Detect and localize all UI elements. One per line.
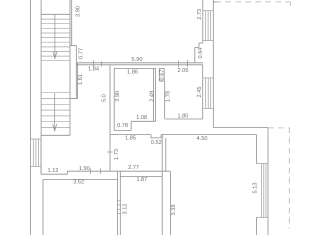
svg-text:3.90: 3.90 <box>75 6 81 17</box>
wall room SW top inner <box>43 178 118 180</box>
wall mid band <box>110 134 151 136</box>
wall divider left <box>117 171 119 235</box>
wall corridor left <box>109 65 111 171</box>
svg-text:1.84: 1.84 <box>88 67 99 73</box>
svg-text:0.77: 0.77 <box>78 48 84 59</box>
wall jog d <box>194 48 196 63</box>
svg-text:2.49: 2.49 <box>150 91 156 102</box>
wall band long <box>161 134 256 136</box>
wall stair right outer <box>71 0 73 46</box>
wall stair left <box>40 0 42 174</box>
wall NE outer vertical <box>212 0 214 128</box>
svg-text:2.05: 2.05 <box>178 68 189 74</box>
wall dip bottom <box>151 137 161 139</box>
svg-text:2.45: 2.45 <box>197 87 203 98</box>
wall step <box>66 171 68 174</box>
window W1 left wall <box>30 139 41 174</box>
wall dip right <box>160 135 162 138</box>
svg-text:0.52: 0.52 <box>151 140 162 146</box>
svg-text:3.52: 3.52 <box>73 180 84 186</box>
room mid notch bottom <box>114 129 131 131</box>
svg-text:5.0: 5.0 <box>102 94 108 102</box>
dashed boundary right vertical <box>288 128 290 229</box>
svg-text:0.78: 0.78 <box>117 123 128 129</box>
tick marks dimension jambs <box>90 60 187 174</box>
window W5 divider wall <box>117 201 121 214</box>
room SM right outer <box>169 171 171 235</box>
stair arrow upper <box>53 14 57 58</box>
wall dip left <box>150 135 152 138</box>
svg-text:1.80: 1.80 <box>177 113 188 119</box>
wall corridor right <box>113 68 115 130</box>
wall jog b <box>198 43 200 48</box>
svg-text:5.13: 5.13 <box>253 183 259 194</box>
svg-text:3.39: 3.39 <box>171 205 177 216</box>
wall SE right inner <box>255 135 257 164</box>
window W2 top right wall <box>203 11 214 41</box>
room mid right inner <box>153 68 155 121</box>
dashed boundary right horizontal <box>268 127 289 129</box>
wall SE right outer <box>267 128 269 235</box>
wall divider right <box>119 171 121 235</box>
stair arrow lower <box>53 93 57 131</box>
svg-text:1.87: 1.87 <box>136 177 147 183</box>
room SM right inner <box>161 135 163 235</box>
wall jog right inner <box>77 63 79 99</box>
room mid notch side <box>130 121 132 130</box>
svg-text:1.85: 1.85 <box>125 136 136 142</box>
svg-text:3.12: 3.12 <box>123 204 129 215</box>
svg-text:0.64: 0.64 <box>198 48 204 59</box>
dimension labels horizontal <box>48 57 208 186</box>
wall left outer <box>30 0 32 235</box>
stair bottom line <box>41 134 70 136</box>
wall stair right inner <box>69 0 71 135</box>
wall jog bottom <box>70 98 78 100</box>
wall E inner <box>202 65 204 119</box>
svg-text:4.50: 4.50 <box>197 136 208 142</box>
svg-text:1.08: 1.08 <box>136 115 147 121</box>
wall jog c <box>195 47 199 49</box>
wall SE section top outer <box>213 127 268 129</box>
room mid right outer <box>155 68 157 121</box>
svg-text:3.90: 3.90 <box>115 91 121 102</box>
room SM top inner <box>120 175 162 177</box>
wall room NE bottom <box>165 118 203 120</box>
wall NE inner top <box>202 0 204 43</box>
svg-text:2.77: 2.77 <box>128 165 139 171</box>
svg-text:1.78: 1.78 <box>166 91 172 102</box>
wall lower rooms top <box>67 170 170 172</box>
room SM right mid <box>165 138 167 171</box>
wall stub bottom <box>159 80 164 82</box>
wall top cap <box>213 1 218 3</box>
wall stub left <box>158 68 160 81</box>
dimension labels rotated <box>75 6 258 215</box>
wall main horizontal top outer <box>76 62 203 64</box>
room mid bottom <box>131 120 155 122</box>
wall room NE left <box>164 81 166 119</box>
wall jog top <box>70 45 76 47</box>
svg-text:1.61: 1.61 <box>78 74 84 85</box>
svg-text:2.73: 2.73 <box>197 9 203 20</box>
wall lower rooms top step low <box>41 173 68 175</box>
window W3 east wall <box>203 78 214 109</box>
svg-text:0.67: 0.67 <box>160 70 166 81</box>
stair top line <box>41 13 70 15</box>
wall room SW left inner <box>42 179 44 235</box>
wall stub right <box>163 68 165 81</box>
svg-text:1.90: 1.90 <box>79 166 90 172</box>
room mid top <box>114 67 155 69</box>
wall jog right outer <box>75 46 77 99</box>
wall stub top <box>159 67 164 69</box>
wall SE right inner low <box>255 217 257 235</box>
stairs lower flight <box>41 93 70 128</box>
svg-text:1.12: 1.12 <box>48 168 59 174</box>
window W4 south east wall <box>256 164 268 218</box>
svg-text:5.90: 5.90 <box>132 57 143 63</box>
svg-text:1.86: 1.86 <box>127 70 138 76</box>
stairs upper flight <box>41 19 70 61</box>
dashed boundary top <box>216 1 291 3</box>
wall jog a <box>199 42 203 44</box>
dashed boundary tick <box>289 2 291 6</box>
svg-text:1.73: 1.73 <box>114 149 120 160</box>
wall main horizontal top inner <box>76 64 203 66</box>
